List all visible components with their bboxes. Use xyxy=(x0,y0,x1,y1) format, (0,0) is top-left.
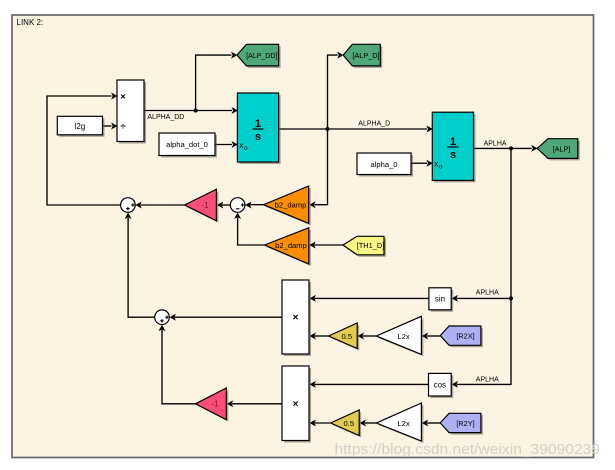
trig cos xyxy=(429,373,454,398)
product P2 xyxy=(282,280,311,356)
integrator U1 xyxy=(237,93,280,164)
svg-text:b2_damp: b2_damp xyxy=(275,201,307,210)
arrow into P1 x input xyxy=(111,93,117,100)
from tag [R2Y] xyxy=(440,413,483,434)
wire alpha_dot_0 to U1 x0 xyxy=(215,144,232,146)
svg-text:0.5: 0.5 xyxy=(342,332,353,341)
arrow into L2x lower xyxy=(422,420,428,427)
svg-text:[ALP_DD]: [ALP_DD] xyxy=(246,53,277,60)
arrow into b2_damp lower xyxy=(309,242,315,249)
arrow into sum S3 right xyxy=(170,314,176,321)
wire -1 lower to S3 bottom xyxy=(162,330,195,404)
wire sum1 output feedback to product P1 xyxy=(47,96,121,205)
arrow into sin xyxy=(452,295,458,302)
product/divide P1 xyxy=(117,80,146,144)
goto tag [ALP_DD] xyxy=(237,44,281,68)
svg-text:-1: -1 xyxy=(211,400,219,409)
wire S2 output to gain -1 upper xyxy=(222,204,231,206)
wire b2_damp lower to S2 bottom xyxy=(238,218,265,245)
arrow into S3 bottom xyxy=(159,325,166,331)
arrow into U2 input xyxy=(426,126,432,133)
svg-text:APLHA: APLHA xyxy=(484,140,507,147)
svg-text:[ALP]: [ALP] xyxy=(553,144,571,153)
arrow into L2x upper xyxy=(422,333,428,340)
arrow into cos xyxy=(452,381,458,388)
svg-text:alpha_0: alpha_0 xyxy=(370,160,397,169)
arrow into U1 x0 xyxy=(232,141,238,148)
svg-text:1: 1 xyxy=(255,118,261,130)
arrow into S1 bottom xyxy=(125,213,132,219)
svg-text:ALPHA_D: ALPHA_D xyxy=(358,120,390,127)
svg-text:APLHA: APLHA xyxy=(476,290,499,297)
wire APLHA branch down to sin xyxy=(457,148,511,298)
product P3 xyxy=(282,366,311,443)
wire U1 output ALPHA_D to integrator U2 xyxy=(279,128,427,130)
wire l2g to P1 divide input xyxy=(103,125,112,127)
svg-text:[R2Y]: [R2Y] xyxy=(456,419,474,428)
wire -1 upper to S1 xyxy=(141,204,185,206)
arrow into 0.5 lower xyxy=(360,420,366,427)
integrator U2 xyxy=(432,112,475,182)
wire TH1_D to b2_damp lower xyxy=(314,244,343,246)
svg-text:0.5: 0.5 xyxy=(344,419,355,428)
svg-text:l2g: l2g xyxy=(75,122,86,131)
wire L2x upper to gain 0.5 upper xyxy=(363,335,377,337)
svg-text:alpha_dot_0: alpha_dot_0 xyxy=(166,140,208,149)
gain L2x upper xyxy=(376,316,423,356)
arrow into U2 x0 xyxy=(426,160,432,167)
junction ALPHA_D xyxy=(326,127,330,131)
svg-text:[TH1_D]: [TH1_D] xyxy=(357,241,385,250)
svg-text:ALPHA_DD: ALPHA_DD xyxy=(147,114,184,121)
arrow into 0.5 upper xyxy=(358,333,364,340)
gain -1 upper xyxy=(185,189,219,223)
wire junction to goto ALP_DD xyxy=(196,55,232,110)
gain b2_damp lower xyxy=(265,228,311,266)
svg-text:[ALP_D]: [ALP_D] xyxy=(352,51,379,60)
constant alpha_0 xyxy=(357,153,413,177)
junction APLHA xyxy=(509,146,513,150)
svg-text:o: o xyxy=(244,145,248,152)
arrow into b2_damp upper xyxy=(309,201,315,208)
wire U2 output APLHA to goto ALP xyxy=(474,147,532,149)
goto tag [ALP_D] xyxy=(343,44,382,68)
sum S1 xyxy=(121,198,136,213)
trig sin xyxy=(429,288,453,312)
arrow into -1 lower xyxy=(227,400,233,407)
svg-text:sin: sin xyxy=(435,295,445,304)
arrow into P1 divide input xyxy=(111,123,117,130)
constant alpha_dot_0 xyxy=(159,133,217,158)
wire L2x lower to gain 0.5 lower xyxy=(365,422,377,424)
svg-text:b2_damp: b2_damp xyxy=(275,241,307,250)
svg-text:cos: cos xyxy=(434,381,446,390)
wire junction down to gain b2_damp upper xyxy=(314,129,327,205)
arrow into U1 input xyxy=(232,107,238,114)
wire R2Y to L2x lower xyxy=(427,422,440,424)
junction ALPHA_DD xyxy=(194,109,198,113)
wire R2X to L2x upper xyxy=(427,335,440,337)
arrow into P2 upper input xyxy=(310,295,316,302)
from tag [TH1_D] xyxy=(343,236,386,256)
svg-text:L2x: L2x xyxy=(397,419,409,428)
arrow into sum S2 right xyxy=(245,202,251,209)
svg-text:×: × xyxy=(293,313,299,324)
goto tag [ALP] xyxy=(537,139,580,161)
arrow into P2 lower input xyxy=(310,333,316,340)
arrow into P3 upper input xyxy=(310,381,316,388)
arrow into P3 lower input xyxy=(310,420,316,427)
wire sin to product P2 xyxy=(315,297,429,299)
svg-text:1: 1 xyxy=(450,136,456,148)
wire 0.5 upper to P2 lower input xyxy=(315,335,329,337)
wire P3 output to gain -1 lower xyxy=(232,403,282,405)
arrow into goto ALP xyxy=(531,145,537,152)
wire junction to goto ALP_D xyxy=(328,55,338,129)
svg-text:×: × xyxy=(120,91,126,102)
gain 0.5 lower xyxy=(331,410,362,438)
arrow into goto ALP_D xyxy=(337,52,343,59)
sum S2 xyxy=(230,198,245,213)
wire P1 output ALPHA_DD to integrator U1 xyxy=(144,110,232,112)
gain -1 lower xyxy=(195,388,228,422)
gain 0.5 upper xyxy=(329,323,360,351)
svg-text:÷: ÷ xyxy=(120,121,125,132)
wire S3 output up to sum S1 xyxy=(128,218,155,318)
wire alpha_0 to U2 x0 xyxy=(411,162,427,164)
arrow into goto ALP_DD xyxy=(231,52,237,59)
wire P2 output to sum S3 xyxy=(175,316,282,318)
svg-text:o: o xyxy=(439,164,443,171)
wire APLHA branch down to cos xyxy=(457,298,511,384)
constant l2g xyxy=(57,116,104,137)
wire cos to product P3 xyxy=(315,383,429,385)
svg-text:APLHA: APLHA xyxy=(476,376,499,383)
arrow into -1 upper xyxy=(217,202,223,209)
gain b2_damp upper xyxy=(264,186,311,225)
svg-text:[R2X]: [R2X] xyxy=(456,332,474,341)
wire b2_damp upper to sum S2 xyxy=(250,204,263,206)
sum S3 xyxy=(155,310,170,325)
svg-text:s: s xyxy=(255,131,261,143)
wire 0.5 lower to P3 lower input xyxy=(315,422,331,424)
gain L2x lower xyxy=(376,403,423,443)
svg-text:L2x: L2x xyxy=(397,332,409,341)
svg-text:https://blog.csdn.net/weixin_3: https://blog.csdn.net/weixin_39090239 xyxy=(335,441,601,458)
svg-text:LINK 2:: LINK 2: xyxy=(17,18,44,27)
svg-text:s: s xyxy=(450,149,456,161)
svg-text:-1: -1 xyxy=(201,201,209,210)
arrow into S1 right xyxy=(135,202,141,209)
junction sin tap xyxy=(509,296,513,300)
from tag [R2X] xyxy=(440,326,483,347)
svg-text:×: × xyxy=(293,399,299,410)
arrow into S2 bottom xyxy=(234,213,241,219)
